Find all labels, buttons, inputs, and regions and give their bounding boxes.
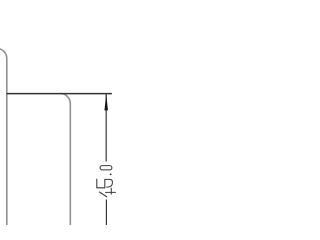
left part outline: top edge fillet + vertical edge [0, 48, 7, 226]
horizontal edge / dimension reference line [7, 93, 112, 95]
dimension line upper segment [105, 94, 107, 162]
dimension text: digit 4 (rotated) [100, 188, 116, 197]
dimension text: decimal point (rotated) [110, 173, 112, 175]
dimension text: digit 5 (rotated) [97, 179, 113, 188]
dimension line lower segment [105, 200, 107, 227]
dimension text: digit 0 (rotated) [100, 166, 112, 170]
dimension arrowhead [104, 94, 108, 111]
right part outline: top fillet + vertical edge [60, 94, 70, 227]
